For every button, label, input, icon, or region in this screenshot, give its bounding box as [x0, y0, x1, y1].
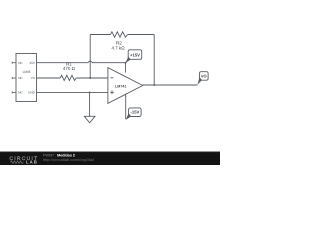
svg-text:http://circuitlab.com/c/xg3fa4: http://circuitlab.com/c/xg3fa4 — [43, 158, 94, 162]
svg-text:LM741: LM741 — [115, 85, 126, 89]
svg-text:NC: NC — [18, 61, 23, 65]
svg-text:NC: NC — [18, 91, 23, 95]
svg-text:+15V: +15V — [130, 52, 140, 57]
svg-text:GND: GND — [28, 91, 36, 95]
svg-text:vO: vO — [201, 74, 207, 79]
svg-text:NC: NC — [18, 76, 23, 80]
svg-text:LM35: LM35 — [23, 70, 31, 74]
svg-text:4.7 kΩ: 4.7 kΩ — [112, 46, 126, 51]
svg-text:LAB: LAB — [26, 160, 38, 165]
svg-text:PWM? : Medidas 2: PWM? : Medidas 2 — [43, 153, 75, 157]
svg-text:15V: 15V — [29, 61, 35, 65]
svg-text:470 Ω: 470 Ω — [63, 66, 76, 71]
svg-text:VS: VS — [31, 76, 35, 80]
svg-text:-15V: -15V — [130, 110, 139, 115]
